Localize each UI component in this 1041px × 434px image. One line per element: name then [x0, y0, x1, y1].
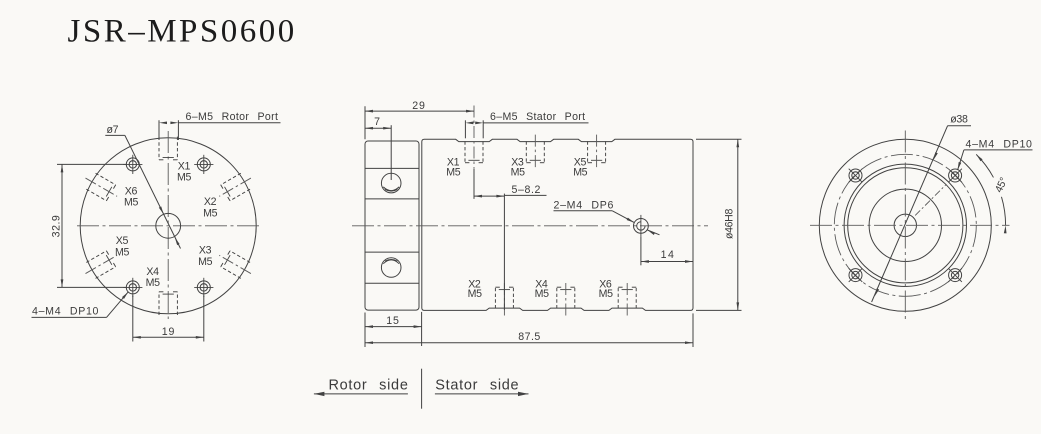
svg-text:14: 14: [661, 249, 676, 261]
right view outer circle: [819, 139, 991, 311]
middle view axis centerline: [352, 225, 708, 227]
svg-text:X2: X2: [204, 196, 217, 208]
right view horizontal centerline: [810, 224, 1010, 226]
dim 45 degree arc: [975, 153, 1010, 233]
dim o38 leader: [872, 114, 971, 302]
svg-text:M5: M5: [203, 207, 217, 219]
port X4 thread (left view): [159, 292, 177, 315]
port X3 thread (middle view): [526, 135, 544, 169]
svg-text:6–M5 Stator Port: 6–M5 Stator Port: [490, 111, 585, 123]
dim 2-M4 DP6 leader: [554, 199, 660, 235]
svg-text:32.9: 32.9: [51, 215, 63, 238]
svg-text:ø38: ø38: [950, 114, 968, 126]
svg-text:7: 7: [374, 116, 381, 128]
center hole o7: [156, 213, 181, 238]
svg-text:Rotor side: Rotor side: [329, 377, 409, 393]
boss inner circle: [848, 168, 963, 283]
svg-text:ø7: ø7: [107, 124, 119, 136]
svg-text:X5: X5: [116, 235, 129, 247]
port X1 thread (left view): [159, 137, 177, 160]
svg-text:M5: M5: [511, 166, 525, 178]
svg-text:Stator side: Stator side: [435, 377, 519, 393]
svg-text:M5: M5: [177, 172, 191, 184]
bolt hole M4 bottom-left: [123, 278, 142, 297]
svg-text:JSR–MPS0600: JSR–MPS0600: [68, 13, 297, 49]
svg-text:4–M4 DP10: 4–M4 DP10: [32, 305, 99, 317]
flange groove line: [365, 198, 419, 200]
boss circle: [844, 164, 966, 286]
bolt hole M4 SE: [942, 262, 969, 289]
right view: stator face: [810, 114, 1033, 322]
flange groove line: [365, 282, 419, 284]
stator body outline: [422, 139, 693, 310]
dim o46H8: [696, 139, 742, 310]
svg-text:M5: M5: [468, 288, 482, 300]
45 deg radial centerline: [915, 184, 946, 215]
bolt circle o38 (dash-dot): [834, 154, 976, 296]
left view: rotor face: [32, 111, 281, 342]
bolt hole M4 NE: [942, 162, 969, 189]
dim 4-M4 DP10 leader (left view): [32, 291, 130, 317]
flange groove line: [365, 251, 419, 253]
svg-text:19: 19: [162, 326, 175, 338]
svg-text:X6: X6: [125, 185, 138, 197]
dim 4-M4 DP10 leader (right view): [956, 138, 1032, 170]
middle view: side section: [314, 100, 742, 409]
port X5 thread (left view): [81, 247, 122, 281]
rotor side / stator side callout: [314, 369, 529, 409]
bolt hole M4 top-left: [123, 155, 142, 174]
svg-text:M5: M5: [115, 246, 129, 258]
dim o7 leader: [105, 124, 180, 248]
dim 15: [365, 312, 422, 347]
dim 6-M5 Stator Port: [465, 111, 588, 138]
rotor flange outline: [365, 141, 419, 310]
bolt hole M4 NW: [842, 162, 869, 189]
dim 7: [365, 116, 391, 180]
svg-text:M5: M5: [599, 288, 613, 300]
svg-text:M5: M5: [198, 256, 212, 268]
left view vertical centerline: [167, 131, 169, 319]
dim 29: [365, 100, 474, 139]
svg-text:15: 15: [386, 315, 399, 327]
svg-text:X4: X4: [146, 266, 159, 278]
svg-text:4–M4 DP10: 4–M4 DP10: [966, 138, 1033, 150]
svg-text:M5: M5: [124, 197, 138, 209]
dim 87.5: [365, 313, 693, 347]
port X2 thread (left view): [215, 170, 256, 204]
port X1 thread (middle view): [465, 106, 483, 169]
svg-text:2–M4 DP6: 2–M4 DP6: [554, 199, 615, 211]
left view outer circle: [80, 138, 256, 314]
recess circle: [869, 189, 941, 261]
flange bottom hole: [381, 258, 401, 278]
port X4 thread (middle view): [557, 281, 575, 315]
dim 14: [641, 237, 693, 265]
hole 2-M4 DP6: [634, 215, 649, 237]
svg-text:M5: M5: [535, 288, 549, 300]
bolt hole M4 bottom-right: [194, 278, 213, 297]
svg-text:ø46H8: ø46H8: [724, 209, 736, 240]
svg-text:87.5: 87.5: [518, 331, 541, 343]
svg-text:M5: M5: [446, 166, 460, 178]
bolt hole M4 SW: [842, 262, 869, 289]
svg-text:X3: X3: [199, 245, 212, 257]
port X3 thread (left view): [215, 247, 256, 281]
port X5 thread (middle view): [588, 135, 606, 169]
svg-text:6–M5 Rotor Port: 6–M5 Rotor Port: [186, 111, 279, 123]
center hole: [894, 214, 916, 236]
flange top hole: [381, 173, 401, 193]
svg-text:M5: M5: [573, 166, 587, 178]
flange groove line: [365, 167, 419, 169]
svg-text:29: 29: [412, 100, 425, 112]
dim 5-8.2: [474, 169, 547, 310]
port X6 thread (left view): [81, 170, 122, 204]
svg-text:5–8.2: 5–8.2: [512, 184, 542, 196]
svg-text:X1: X1: [178, 160, 191, 172]
dim 19: [133, 296, 204, 342]
port X2 thread (middle view): [495, 281, 513, 315]
left view horizontal centerline: [77, 225, 261, 227]
port X6 thread (middle view): [618, 281, 636, 315]
bolt hole M4 top-right: [194, 155, 213, 174]
dim 6-M5 Rotor Port: [159, 111, 281, 140]
dim 32.9: [51, 164, 127, 287]
svg-text:M5: M5: [146, 277, 160, 289]
right view vertical centerline: [904, 131, 906, 323]
